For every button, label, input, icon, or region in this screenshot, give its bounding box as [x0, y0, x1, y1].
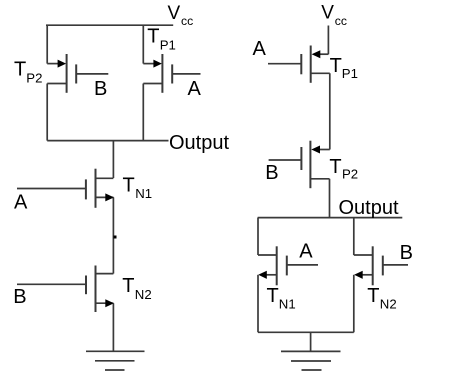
- transistor TP1 (left PMOS): [143, 54, 200, 93]
- svg-text:A: A: [188, 78, 202, 100]
- svg-text:T: T: [14, 59, 26, 81]
- svg-text:V: V: [321, 3, 334, 24]
- junction nub on wire: [114, 236, 117, 239]
- wire output rail to TN2 drain: [353, 218, 355, 255]
- transistor TN1 (right NMOS): [258, 246, 318, 285]
- svg-text:N1: N1: [279, 296, 296, 311]
- wire TP2 source to output rail: [46, 84, 48, 141]
- svg-text:N1: N1: [135, 186, 152, 201]
- svg-text:T: T: [267, 285, 279, 307]
- ground (left circuit): [86, 351, 145, 370]
- wire TP2 source to output rail: [329, 179, 331, 218]
- wire TN1 source to ground rail: [257, 275, 259, 333]
- svg-text:T: T: [123, 175, 135, 197]
- svg-text:B: B: [265, 162, 278, 184]
- wire ground rail (right circuit): [258, 331, 354, 333]
- svg-text:B: B: [13, 286, 26, 308]
- wire TN2 source to ground rail: [353, 275, 355, 333]
- transistor TP2 (left PMOS): [47, 54, 108, 93]
- svg-text:A: A: [299, 240, 313, 262]
- wire TP1 source to TP2 drain: [329, 73, 331, 149]
- transistor TN2 (left NMOS): [17, 266, 114, 313]
- svg-text:Output: Output: [339, 197, 399, 219]
- svg-text:P1: P1: [160, 38, 176, 53]
- transistor TP1 (right PMOS): [268, 46, 330, 83]
- svg-text:T: T: [330, 55, 342, 77]
- transistor TP2 (right PMOS): [269, 141, 330, 189]
- wire from Vcc rail to TP2 drain: [46, 25, 48, 63]
- ground (right circuit): [281, 351, 341, 370]
- wire output rail (right circuit): [258, 217, 403, 219]
- svg-text:P2: P2: [342, 167, 358, 182]
- wire from Vcc rail to TP1 drain: [142, 25, 144, 63]
- svg-text:N2: N2: [380, 296, 397, 311]
- wire TN2 source to ground: [112, 303, 114, 351]
- wire TN1 source to TN2 drain: [112, 197, 114, 273]
- svg-text:P1: P1: [342, 66, 358, 81]
- svg-text:Output: Output: [169, 132, 229, 154]
- svg-text:N2: N2: [135, 287, 152, 302]
- wire ground stem (right circuit): [310, 332, 312, 351]
- svg-text:T: T: [147, 26, 159, 48]
- svg-text:B: B: [94, 78, 107, 100]
- svg-text:V: V: [168, 3, 181, 24]
- svg-text:B: B: [400, 242, 413, 264]
- svg-text:T: T: [122, 275, 134, 297]
- wire output rail (left circuit): [47, 140, 168, 142]
- svg-text:A: A: [14, 192, 28, 214]
- svg-text:T: T: [367, 285, 379, 307]
- svg-text:P2: P2: [26, 71, 42, 86]
- wire TP1 source to output rail: [142, 84, 144, 141]
- svg-text:A: A: [253, 38, 267, 60]
- svg-text:T: T: [329, 156, 341, 178]
- wire Vcc lead (right circuit): [327, 26, 329, 55]
- transistor TN1 (left NMOS): [17, 169, 114, 208]
- svg-text:cc: cc: [335, 14, 347, 28]
- wire output rail to TN1 drain: [112, 141, 114, 178]
- wire output rail to TN1 drain: [257, 218, 259, 255]
- svg-text:cc: cc: [181, 14, 193, 28]
- transistor TN2 (right NMOS): [354, 246, 408, 285]
- wire Vcc rail (left circuit): [46, 24, 173, 26]
